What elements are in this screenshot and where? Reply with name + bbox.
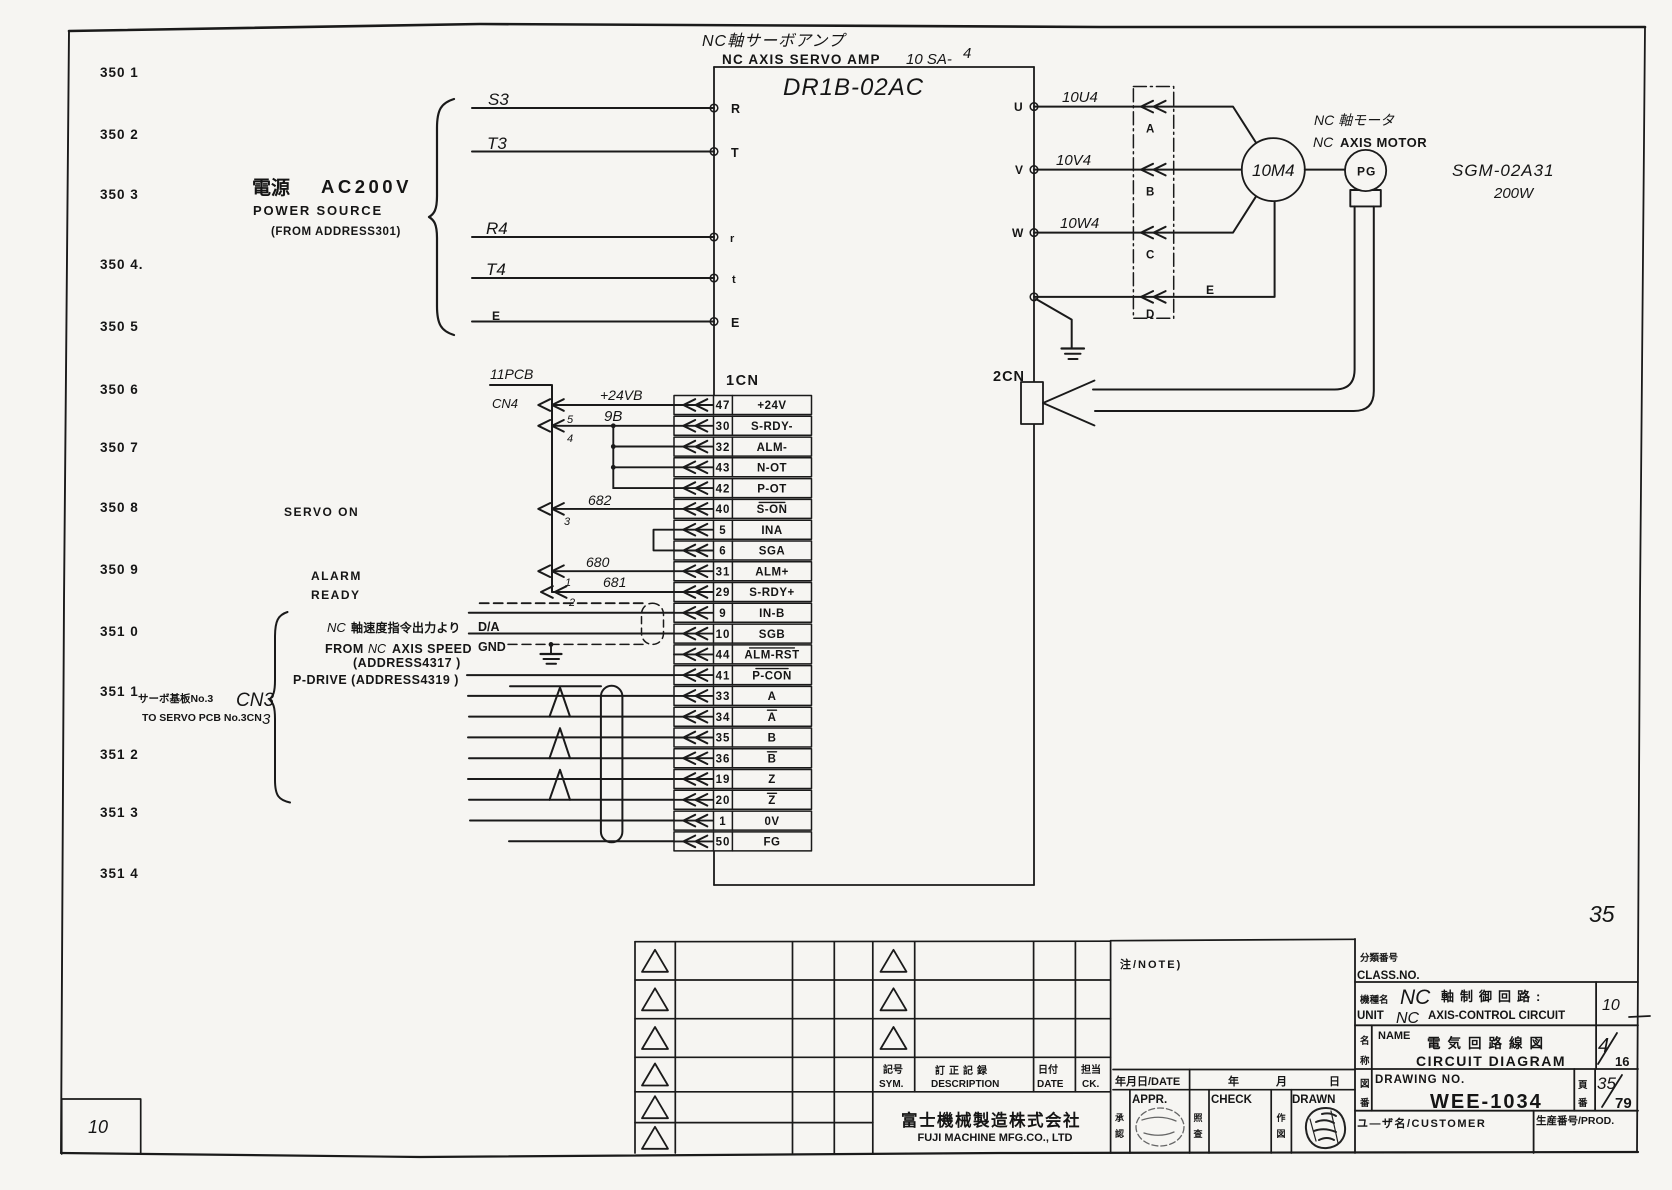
svg-text:351 2: 351 2 bbox=[100, 747, 139, 762]
wire 681 S-RDY+ bbox=[541, 574, 674, 609]
svg-text:350 8: 350 8 bbox=[100, 500, 139, 515]
pin 36 B bbox=[674, 749, 812, 768]
svg-text:3: 3 bbox=[564, 516, 571, 528]
svg-text:PG: PG bbox=[1357, 165, 1376, 179]
svg-text:10: 10 bbox=[88, 1117, 108, 1137]
svg-text:T: T bbox=[731, 146, 739, 160]
pin 41 P-CON bbox=[674, 666, 812, 685]
svg-text:B: B bbox=[768, 754, 777, 766]
terminal V bbox=[1030, 166, 1038, 174]
svg-text:351 1: 351 1 bbox=[100, 684, 139, 699]
pin 1 0V bbox=[674, 811, 812, 830]
pin 40 S-ON bbox=[674, 499, 812, 518]
svg-text:351 3: 351 3 bbox=[100, 805, 139, 820]
wire encoder Z- bbox=[469, 799, 674, 801]
pin 43 N-OT bbox=[674, 458, 812, 477]
wire encoder A- bbox=[469, 716, 674, 718]
wire encoder B- bbox=[469, 757, 674, 759]
svg-text:350 3: 350 3 bbox=[100, 187, 139, 202]
label ALARM READY bbox=[311, 569, 362, 602]
pin 35 B bbox=[674, 728, 812, 747]
svg-text:35: 35 bbox=[1589, 901, 1615, 927]
wire GND dashed bbox=[508, 643, 645, 645]
wire P-CON bbox=[467, 674, 674, 676]
svg-text:16: 16 bbox=[1615, 1054, 1629, 1069]
svg-text:日: 日 bbox=[1329, 1075, 1340, 1088]
servo amp DR1B-02AC box bbox=[714, 67, 1034, 885]
svg-text:10: 10 bbox=[716, 629, 731, 641]
power source label AC200V bbox=[252, 176, 412, 238]
svg-text:生産番号/PROD.: 生産番号/PROD. bbox=[1536, 1114, 1614, 1127]
label NC axis servo amp bbox=[702, 32, 971, 68]
cable shield capsule bbox=[601, 686, 623, 843]
svg-text:DATE: DATE bbox=[1037, 1079, 1064, 1090]
svg-text:350 2: 350 2 bbox=[100, 127, 139, 142]
company name bbox=[901, 1110, 1081, 1144]
svg-text:10: 10 bbox=[1602, 997, 1620, 1014]
svg-text:ユ—ザ名/CUSTOMER: ユ—ザ名/CUSTOMER bbox=[1357, 1116, 1486, 1130]
svg-text:V: V bbox=[1015, 163, 1023, 177]
svg-text:ALM+: ALM+ bbox=[755, 566, 789, 578]
svg-text:10V4: 10V4 bbox=[1056, 152, 1091, 169]
APPR stamp bbox=[1136, 1108, 1184, 1146]
svg-text:POWER SOURCE: POWER SOURCE bbox=[253, 203, 383, 218]
svg-text:NC: NC bbox=[1400, 986, 1431, 1009]
revision mark triangle bbox=[642, 1064, 668, 1086]
revision table bbox=[635, 941, 1111, 1153]
svg-text:47: 47 bbox=[716, 400, 731, 412]
wire encoder A bbox=[468, 695, 674, 697]
svg-text:350 4.: 350 4. bbox=[100, 257, 144, 272]
svg-text:R4: R4 bbox=[486, 219, 508, 238]
terminal E bbox=[710, 318, 718, 326]
svg-text:50: 50 bbox=[716, 837, 731, 849]
brace CN3 group bbox=[270, 612, 291, 803]
svg-text:担当: 担当 bbox=[1081, 1063, 1101, 1076]
svg-text:E: E bbox=[731, 316, 739, 330]
motor 10M4 bbox=[1242, 138, 1305, 201]
pin B motor connector bbox=[1141, 164, 1166, 176]
svg-text:30: 30 bbox=[716, 421, 731, 433]
wire motor to PG bbox=[1305, 169, 1345, 171]
svg-text:350 9: 350 9 bbox=[100, 562, 139, 577]
svg-text:AC200V: AC200V bbox=[321, 176, 412, 197]
svg-text:680: 680 bbox=[586, 554, 610, 570]
wire D/A IN-B bbox=[469, 613, 674, 634]
wire 10V4 (V phase) bbox=[1034, 169, 1242, 171]
pin 31 ALM+ bbox=[674, 562, 812, 581]
svg-text:W: W bbox=[1012, 226, 1024, 240]
svg-text:TO SERVO PCB No.3CN: TO SERVO PCB No.3CN bbox=[142, 712, 262, 724]
svg-text:サーボ基板No.3: サーボ基板No.3 bbox=[138, 692, 213, 705]
wire R4 bbox=[472, 236, 714, 238]
terminal t bbox=[710, 274, 718, 282]
shield dashed upper bbox=[480, 602, 644, 604]
date row bbox=[1113, 1070, 1355, 1090]
svg-text:NC AXIS SERVO AMP: NC AXIS SERVO AMP bbox=[722, 52, 881, 67]
svg-text:照: 照 bbox=[1194, 1113, 1203, 1123]
svg-text:10 SA-: 10 SA- bbox=[906, 51, 952, 68]
svg-text:GND: GND bbox=[478, 640, 506, 654]
svg-text:図: 図 bbox=[1360, 1079, 1370, 1090]
svg-text:350 1: 350 1 bbox=[100, 65, 139, 80]
svg-text:称: 称 bbox=[1360, 1055, 1370, 1067]
shield capsule D/A pair bbox=[642, 603, 664, 644]
svg-text:UNIT: UNIT bbox=[1357, 1010, 1384, 1022]
sheet number 10 box bbox=[62, 1099, 141, 1154]
svg-text:NC: NC bbox=[1396, 1010, 1420, 1027]
label from NC axis speed bbox=[293, 620, 472, 687]
svg-text:B: B bbox=[768, 733, 777, 745]
revision header texts bbox=[879, 1063, 1101, 1090]
svg-text:CHECK: CHECK bbox=[1211, 1094, 1253, 1106]
title block bbox=[1355, 939, 1638, 1153]
svg-text:A: A bbox=[1146, 124, 1154, 136]
svg-text:頁: 頁 bbox=[1578, 1080, 1588, 1091]
pin 47 +24V bbox=[674, 396, 812, 415]
svg-text:NC軸サーボアンプ: NC軸サーボアンプ bbox=[702, 32, 847, 50]
svg-text:42: 42 bbox=[716, 483, 731, 495]
svg-text:10M4: 10M4 bbox=[1252, 161, 1295, 180]
svg-text:20: 20 bbox=[716, 795, 731, 807]
terminal E out bbox=[1030, 293, 1038, 301]
svg-text:6: 6 bbox=[719, 546, 726, 558]
svg-text:682: 682 bbox=[588, 492, 612, 508]
svg-text:DESCRIPTION: DESCRIPTION bbox=[931, 1079, 999, 1090]
wire SGB bbox=[469, 634, 674, 655]
svg-text:350 5: 350 5 bbox=[100, 319, 139, 334]
svg-text:40: 40 bbox=[716, 504, 731, 516]
svg-text:P-OT: P-OT bbox=[757, 483, 786, 495]
svg-text:41: 41 bbox=[716, 670, 731, 682]
svg-text:FG: FG bbox=[764, 837, 781, 849]
svg-text:E: E bbox=[492, 309, 500, 323]
wire S3 bbox=[472, 107, 714, 109]
svg-text:SGA: SGA bbox=[759, 546, 785, 558]
svg-text:軸制御回路:: 軸制御回路: bbox=[1441, 989, 1546, 1004]
svg-text:A: A bbox=[768, 691, 777, 703]
svg-text:B: B bbox=[1146, 187, 1154, 199]
revision mark triangle bbox=[881, 950, 907, 972]
svg-text:9: 9 bbox=[719, 608, 726, 620]
wire 680 ALM+ bbox=[538, 554, 674, 589]
svg-text:機種名: 機種名 bbox=[1360, 994, 1389, 1006]
svg-text:11PCB: 11PCB bbox=[490, 366, 533, 382]
svg-text:10U4: 10U4 bbox=[1062, 89, 1098, 106]
twisted pair crossover bbox=[550, 688, 571, 717]
svg-text:月: 月 bbox=[1275, 1075, 1287, 1088]
svg-text:電源: 電源 bbox=[252, 176, 290, 199]
wire T4 bbox=[472, 277, 714, 279]
svg-text:IN-B: IN-B bbox=[759, 608, 785, 620]
svg-text:査: 査 bbox=[1193, 1128, 1204, 1139]
svg-text:年: 年 bbox=[1228, 1074, 1239, 1088]
sign-off row bbox=[1130, 1090, 1292, 1153]
svg-text:0V: 0V bbox=[764, 816, 779, 828]
svg-text:訂正記録: 訂正記録 bbox=[935, 1064, 991, 1077]
ground at amp output bbox=[1036, 299, 1084, 359]
wire encoder Z bbox=[468, 778, 674, 780]
svg-text:年月日/DATE: 年月日/DATE bbox=[1115, 1074, 1180, 1088]
svg-text:NC: NC bbox=[1313, 134, 1334, 150]
svg-text:作: 作 bbox=[1277, 1112, 1286, 1123]
svg-text:33: 33 bbox=[716, 691, 731, 703]
svg-text:351 0: 351 0 bbox=[100, 624, 139, 639]
pin 9 IN-B bbox=[674, 603, 812, 622]
svg-text:5: 5 bbox=[719, 525, 726, 537]
svg-text:S-ON: S-ON bbox=[757, 504, 788, 516]
svg-text:N-OT: N-OT bbox=[757, 463, 787, 475]
svg-text:C: C bbox=[1146, 250, 1154, 262]
pin 33 A bbox=[674, 686, 812, 705]
wire T3 bbox=[472, 151, 714, 153]
svg-text:S-RDY+: S-RDY+ bbox=[749, 587, 795, 599]
svg-text:SERVO ON: SERVO ON bbox=[284, 505, 359, 519]
note box bbox=[1111, 939, 1355, 1069]
svg-text:Z: Z bbox=[768, 774, 776, 786]
wire 9B pin4 bbox=[538, 408, 674, 445]
encoder cable bbox=[1093, 206, 1374, 411]
pin 19 Z bbox=[674, 770, 812, 789]
svg-text:日付: 日付 bbox=[1038, 1063, 1058, 1076]
svg-text:35: 35 bbox=[716, 733, 731, 745]
svg-text:認: 認 bbox=[1115, 1128, 1124, 1139]
svg-text:CK.: CK. bbox=[1082, 1079, 1099, 1090]
svg-text:T4: T4 bbox=[486, 260, 506, 279]
svg-text:+24VB: +24VB bbox=[600, 387, 642, 403]
svg-text:r: r bbox=[730, 233, 735, 245]
svg-text:記号: 記号 bbox=[883, 1063, 903, 1076]
svg-text:SYM.: SYM. bbox=[879, 1079, 904, 1090]
svg-text:名: 名 bbox=[1360, 1035, 1370, 1047]
svg-text:P-DRIVE (ADDRESS4319 ): P-DRIVE (ADDRESS4319 ) bbox=[293, 673, 459, 687]
wire E bbox=[472, 321, 714, 323]
svg-text:CLASS.NO.: CLASS.NO. bbox=[1357, 970, 1420, 982]
twisted pair crossover bbox=[550, 770, 571, 800]
pin A motor connector bbox=[1141, 101, 1166, 113]
svg-text:AXIS MOTOR: AXIS MOTOR bbox=[1340, 135, 1427, 150]
svg-text:350 6: 350 6 bbox=[100, 382, 139, 397]
svg-text:4: 4 bbox=[963, 45, 971, 62]
wire FG bbox=[509, 840, 674, 842]
svg-text:承: 承 bbox=[1115, 1113, 1124, 1123]
wire 682 S-ON bbox=[538, 492, 674, 528]
handwritten dash bbox=[1629, 1016, 1650, 1017]
pin 42 P-OT bbox=[674, 479, 812, 498]
pin 44 ALM-RST bbox=[674, 645, 812, 664]
svg-text:軸速度指令出力より: 軸速度指令出力より bbox=[351, 620, 461, 635]
svg-text:注/NOTE): 注/NOTE) bbox=[1120, 957, 1182, 971]
revision mark triangle bbox=[881, 988, 907, 1010]
svg-text:ALARM: ALARM bbox=[311, 569, 362, 583]
svg-text:分類番号: 分類番号 bbox=[1360, 952, 1399, 964]
svg-text:E: E bbox=[1206, 283, 1214, 297]
svg-text:D/A: D/A bbox=[478, 620, 500, 634]
svg-text:31: 31 bbox=[716, 566, 731, 578]
svg-text:図: 図 bbox=[1277, 1129, 1286, 1139]
svg-text:350 7: 350 7 bbox=[100, 440, 139, 455]
svg-text:INA: INA bbox=[761, 525, 782, 537]
wire encoder B bbox=[468, 736, 674, 738]
revision mark triangle bbox=[642, 988, 668, 1010]
svg-text:D: D bbox=[1146, 309, 1154, 321]
svg-text:1CN: 1CN bbox=[726, 373, 760, 389]
pin 30 S-RDY- bbox=[674, 416, 812, 435]
svg-text:CN3: CN3 bbox=[236, 690, 274, 711]
net 9B branch to ALM-/N-OT/P-OT bbox=[611, 423, 674, 488]
svg-text:T3: T3 bbox=[487, 134, 507, 153]
svg-text:(ADDRESS4317 ): (ADDRESS4317 ) bbox=[353, 656, 461, 670]
svg-text:R: R bbox=[731, 102, 740, 116]
pin 5 INA bbox=[674, 520, 812, 539]
motor connector dashed box bbox=[1133, 87, 1173, 319]
svg-text:ALM-RST: ALM-RST bbox=[744, 650, 799, 662]
svg-text:NC 軸モータ: NC 軸モータ bbox=[1314, 112, 1395, 128]
svg-text:電気回路線図: 電気回路線図 bbox=[1427, 1035, 1550, 1051]
svg-text:A: A bbox=[768, 712, 777, 724]
svg-text:DRAWN: DRAWN bbox=[1292, 1094, 1335, 1106]
ground at GND wire bbox=[541, 642, 562, 664]
svg-text:SGB: SGB bbox=[759, 629, 785, 641]
svg-text:CIRCUIT DIAGRAM: CIRCUIT DIAGRAM bbox=[1416, 1053, 1566, 1069]
pin 29 S-RDY+ bbox=[674, 583, 812, 602]
svg-text:44: 44 bbox=[716, 650, 731, 662]
revision mark triangle bbox=[642, 1027, 668, 1049]
svg-text:3: 3 bbox=[262, 711, 271, 728]
svg-text:10W4: 10W4 bbox=[1060, 215, 1099, 232]
wire E motor ground bbox=[1034, 201, 1275, 297]
svg-text:681: 681 bbox=[603, 574, 626, 590]
svg-text:S-RDY-: S-RDY- bbox=[751, 421, 793, 433]
svg-text:P-CON: P-CON bbox=[752, 670, 792, 682]
terminal W bbox=[1030, 229, 1038, 237]
svg-text:SGM-02A31: SGM-02A31 bbox=[1452, 161, 1555, 180]
svg-text:9B: 9B bbox=[604, 408, 622, 425]
wire 0V bbox=[470, 820, 674, 822]
encoder PG bbox=[1350, 190, 1381, 206]
DRAWN stamp bbox=[1306, 1108, 1345, 1148]
svg-text:t: t bbox=[732, 274, 736, 286]
svg-text:U: U bbox=[1014, 100, 1023, 114]
svg-text:32: 32 bbox=[716, 442, 731, 454]
svg-text:NAME: NAME bbox=[1378, 1030, 1410, 1042]
svg-text:NC: NC bbox=[368, 642, 387, 656]
svg-text:AXIS SPEED: AXIS SPEED bbox=[392, 642, 472, 656]
revision mark triangle bbox=[881, 1027, 907, 1049]
wire 10U4 (U phase) bbox=[1034, 107, 1257, 144]
terminal r bbox=[710, 233, 718, 241]
shield drain wire top bbox=[510, 685, 601, 687]
pin C motor connector bbox=[1141, 227, 1166, 239]
pin 50 FG bbox=[674, 832, 812, 851]
brace power group bbox=[429, 99, 454, 335]
svg-text:+24V: +24V bbox=[757, 400, 786, 412]
svg-text:79: 79 bbox=[1615, 1095, 1632, 1112]
svg-text:番: 番 bbox=[1577, 1097, 1588, 1109]
jumper INA-SGA bbox=[654, 530, 675, 551]
svg-text:DR1B-02AC: DR1B-02AC bbox=[783, 74, 924, 101]
svg-text:WEE-1034: WEE-1034 bbox=[1430, 1091, 1543, 1113]
svg-text:(FROM ADDRESS301): (FROM ADDRESS301) bbox=[271, 226, 401, 238]
pin 10 SGB bbox=[674, 624, 812, 643]
revision mark triangle bbox=[642, 1096, 668, 1118]
svg-text:ALM-: ALM- bbox=[757, 442, 788, 454]
svg-text:NC: NC bbox=[327, 620, 346, 635]
svg-text:4: 4 bbox=[567, 433, 573, 445]
pin D motor connector bbox=[1141, 291, 1166, 303]
svg-text:29: 29 bbox=[716, 587, 731, 599]
terminal T bbox=[710, 148, 718, 156]
svg-text:DRAWING NO.: DRAWING NO. bbox=[1375, 1074, 1465, 1086]
svg-text:CN4: CN4 bbox=[492, 396, 518, 411]
connector CN4 (11PCB) bbox=[490, 366, 552, 592]
svg-text:34: 34 bbox=[716, 712, 731, 724]
svg-text:FUJI MACHINE MFG.CO., LTD: FUJI MACHINE MFG.CO., LTD bbox=[917, 1132, 1072, 1144]
svg-text:1: 1 bbox=[719, 816, 726, 828]
svg-text:200W: 200W bbox=[1493, 185, 1535, 202]
wire 10W4 (W phase) bbox=[1034, 196, 1257, 233]
svg-text:36: 36 bbox=[716, 754, 731, 766]
pin 20 Z bbox=[674, 790, 812, 809]
terminal U bbox=[1030, 103, 1038, 111]
svg-text:S3: S3 bbox=[488, 90, 509, 109]
svg-text:AXIS-CONTROL CIRCUIT: AXIS-CONTROL CIRCUIT bbox=[1428, 1010, 1565, 1022]
svg-text:19: 19 bbox=[716, 774, 731, 786]
svg-text:Z: Z bbox=[768, 795, 776, 807]
label NC axis motor bbox=[1313, 112, 1427, 150]
revision mark triangle bbox=[642, 1127, 668, 1149]
svg-text:READY: READY bbox=[311, 588, 361, 602]
terminal R bbox=[710, 104, 718, 112]
svg-text:43: 43 bbox=[716, 463, 731, 475]
svg-text:APPR.: APPR. bbox=[1132, 1094, 1167, 1106]
svg-text:富士機械製造株式会社: 富士機械製造株式会社 bbox=[901, 1110, 1081, 1130]
revision mark triangle bbox=[642, 950, 668, 972]
svg-text:5: 5 bbox=[567, 414, 574, 426]
pin 34 A bbox=[674, 707, 812, 726]
label servo pcb CN3 bbox=[138, 690, 274, 728]
pin 6 SGA bbox=[674, 541, 812, 560]
label SGM-02A31 200W bbox=[1452, 161, 1555, 202]
svg-text:351 4: 351 4 bbox=[100, 866, 139, 881]
wire +24VB pin5 bbox=[538, 387, 674, 426]
twisted pair crossover bbox=[550, 728, 571, 758]
svg-text:FROM: FROM bbox=[325, 642, 364, 656]
pin 32 ALM- bbox=[674, 437, 812, 456]
title block texts bbox=[1357, 952, 1632, 1130]
svg-text:番: 番 bbox=[1359, 1097, 1370, 1109]
